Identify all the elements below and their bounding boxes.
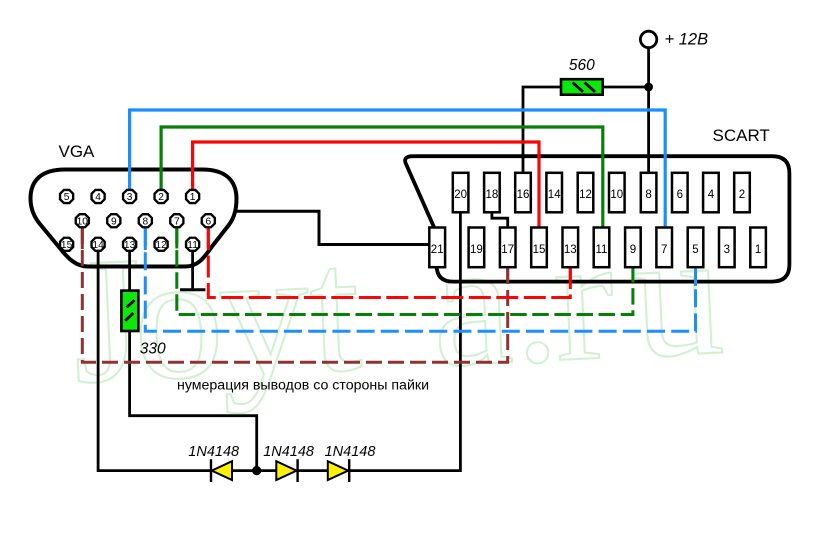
svg-text:13: 13 [564,244,577,256]
dashed wire VGA pin7 to SCART pin9 (green) [177,228,633,315]
SCART pin 11 [594,228,610,268]
VGA pin 15 [60,238,73,251]
svg-text:20: 20 [454,189,467,201]
svg-text:3: 3 [724,244,730,256]
svg-text:15: 15 [61,240,73,251]
VGA pin 10 [76,214,89,227]
svg-text:5: 5 [64,192,70,203]
svg-text:11: 11 [187,240,198,251]
dashed wire VGA pin10 to SCART pin17 (maroon) [82,228,507,362]
VGA pin 6 [202,214,215,227]
svg-text:14: 14 [92,240,104,251]
svg-text:+ 12В: + 12В [665,31,709,49]
SCART pin 17 [500,228,516,268]
svg-text:14: 14 [548,189,561,201]
VGA pin 9 [107,214,120,227]
svg-text:19: 19 [470,244,483,256]
wire junction down to SCART pin8 [647,87,650,173]
svg-text:SCART: SCART [713,126,770,145]
SCART pin 14 [546,173,562,213]
SCART pin 3 [719,228,735,268]
+12V terminal circle [640,31,656,47]
junction node dot diodes [252,466,261,475]
VGA pin 11 [186,238,199,251]
jumper SCART pin18 to pin17 [492,213,508,228]
SCART pin 2 [734,173,750,213]
SCART pin 16 [515,173,531,213]
svg-text:21: 21 [431,244,444,256]
resistor R1 560 [561,79,603,95]
VGA pin 3 [123,190,136,203]
dashed wire VGA pin8 to SCART pin5 (blue) [145,228,695,331]
wire VGA pin11 to ground [191,251,194,290]
svg-text:6: 6 [205,216,211,227]
SCART pin 5 [688,228,704,268]
svg-text:18: 18 [486,189,499,201]
svg-text:10: 10 [610,189,623,201]
SCART pin 1 [750,228,766,268]
wire resistor 560 to junction [603,86,649,89]
svg-text:17: 17 [501,244,514,256]
VGA pin 4 [92,190,105,203]
svg-text:11: 11 [596,244,608,256]
svg-text:3: 3 [127,192,133,203]
svg-text:9: 9 [111,216,117,227]
SCART pin 12 [578,173,594,213]
svg-text:7: 7 [661,244,667,256]
svg-text:2: 2 [739,189,745,201]
wire VGA pin13 to resistor 330 [128,251,131,291]
SCART pin 20 [453,173,469,213]
VGA connector body [31,170,237,267]
VGA pin 1 [186,190,199,203]
SCART connector body [405,156,789,281]
diode D2 1N4148 (pointing right) [276,459,297,482]
SCART pin 8 [641,173,657,213]
wire +12V terminal to junction [647,48,650,88]
VGA pin 7 [170,214,183,227]
svg-text:1: 1 [755,244,761,256]
svg-text:6: 6 [677,189,683,201]
wire VGA pin3 to SCART pin7 (blue) [130,110,666,227]
svg-text:10: 10 [77,216,89,227]
dashed wire VGA pin6 to SCART pin13 (red) [208,228,570,298]
svg-text:5: 5 [692,244,698,256]
svg-text:12: 12 [579,189,592,201]
SCART pin 10 [609,173,625,213]
wire SCART pin16 to resistor 560 [523,87,561,173]
svg-text:1N4148: 1N4148 [188,444,239,460]
resistor R2 330 [121,291,138,331]
svg-text:16: 16 [517,189,530,201]
svg-text:нумерация выводов со стороны п: нумерация выводов со стороны пайки [177,378,429,394]
svg-text:VGA: VGA [59,142,96,161]
VGA pin 5 [60,190,73,203]
svg-text:13: 13 [124,240,136,251]
VGA pin 12 [155,238,168,251]
wire resistor 330 to diode junction [130,331,257,471]
svg-text:2: 2 [158,192,164,203]
SCART pin 21 [429,228,445,268]
diode D1 1N4148 (pointing left) [211,459,232,482]
SCART pin 6 [672,173,688,213]
wire VGA pin14 down, diode row, up to SCART pin20 [98,213,460,471]
ground bar [180,288,205,291]
svg-text:1N4148: 1N4148 [263,444,314,460]
wire VGA pin1 to SCART pin15 (red) [193,142,539,227]
VGA pin 13 [123,238,136,251]
junction node dot [644,83,653,92]
svg-text:560: 560 [569,57,595,74]
SCART pin 7 [656,228,672,268]
SCART pin 19 [469,228,485,268]
SCART pin 15 [531,228,547,268]
SCART pin 9 [625,228,641,268]
SCART pin 18 [484,173,500,213]
VGA pin 14 [92,238,105,251]
svg-text:8: 8 [142,216,148,227]
svg-text:15: 15 [533,244,546,256]
svg-text:4: 4 [708,189,715,201]
wire VGA shell to SCART pin21 [236,211,430,244]
svg-text:4: 4 [95,192,101,203]
SCART pin 13 [563,228,579,268]
VGA pin 8 [139,214,152,227]
svg-text:9: 9 [630,244,636,256]
wire VGA pin2 to SCART pin11 (green) [161,127,603,227]
SCART pin 4 [703,173,719,213]
svg-text:12: 12 [155,240,167,251]
svg-text:1N4148: 1N4148 [325,444,376,460]
VGA pin 2 [155,190,168,203]
svg-text:8: 8 [645,189,651,201]
diode D3 1N4148 (pointing right) [328,459,349,482]
svg-text:7: 7 [174,216,180,227]
svg-text:330: 330 [140,341,166,358]
svg-text:1: 1 [190,192,196,203]
